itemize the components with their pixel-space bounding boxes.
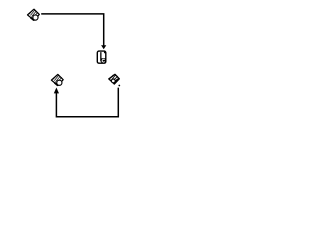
icon node D (bottom-right tilted striped icon) bbox=[109, 74, 120, 86]
arrowhead into bottom-left icon (pointing up) bbox=[54, 88, 59, 94]
background bbox=[0, 0, 150, 127]
arrowhead into middle icon (pointing down) bbox=[101, 45, 106, 49]
icon node C (bottom-left flower icon) bbox=[51, 74, 63, 85]
icon node B (middle scroll icon) bbox=[97, 51, 106, 63]
wire connector 2 (bottom-right icon to bottom-left icon) bbox=[56, 88, 118, 117]
wire connector 1 (top-left icon to middle icon) bbox=[41, 14, 103, 46]
icon node A (top-left flower icon) bbox=[28, 9, 40, 20]
